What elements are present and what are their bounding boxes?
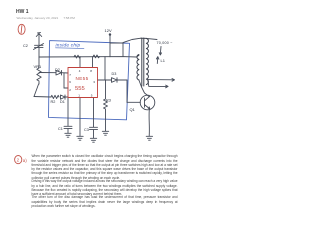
annotation arrow up L1 xyxy=(156,57,159,64)
Q1 base bar xyxy=(144,98,146,107)
svg-text:2: 2 xyxy=(69,88,71,92)
svg-text:3: 3 xyxy=(93,80,95,84)
answer paragraph 2 xyxy=(32,179,178,196)
date line xyxy=(17,16,75,20)
svg-text:555: 555 xyxy=(75,86,85,92)
svg-text:2: 2 xyxy=(17,157,20,162)
resistor bump R1 on rail xyxy=(74,55,81,58)
primary top junction from rail xyxy=(137,55,139,57)
IC U1 555 timer red box xyxy=(68,68,98,98)
ground under Q1 emitter xyxy=(146,135,152,137)
svg-text:a): a) xyxy=(23,158,28,163)
antenna symbol xyxy=(38,34,40,46)
diode D3 xyxy=(112,78,118,83)
svg-text:R3: R3 xyxy=(106,99,111,103)
Q1 collector xyxy=(145,96,150,101)
resistor bump on rail right xyxy=(93,55,100,58)
wire down to C1 xyxy=(67,97,69,126)
svg-text:D3: D3 xyxy=(112,72,117,76)
svg-text:4: 4 xyxy=(79,69,81,73)
12V feed wire xyxy=(109,35,111,57)
wire into pin 2 xyxy=(64,87,68,89)
svg-text:6: 6 xyxy=(69,80,71,84)
bottom left wire with R2 and D1 xyxy=(34,96,51,99)
wire primary to collector xyxy=(139,80,149,97)
title HW 1 xyxy=(16,9,29,15)
transformer core lines xyxy=(141,38,143,86)
secondary top link xyxy=(141,37,147,39)
svg-text:12V: 12V xyxy=(105,28,112,33)
svg-text:1: 1 xyxy=(78,93,80,97)
component labels xyxy=(23,28,173,132)
wire D2 to chip xyxy=(62,72,69,74)
555 pin5 wire to C3 xyxy=(93,98,95,128)
diode D1 xyxy=(61,95,66,99)
555 pin8 stub xyxy=(92,57,94,68)
answer paragraph 1 xyxy=(32,154,178,180)
red circled problem number 1 xyxy=(18,24,25,34)
diode D2 xyxy=(56,70,62,75)
transformer secondary output lead A xyxy=(148,79,175,81)
svg-text:8: 8 xyxy=(90,69,92,73)
wire pin7 to pin2 vertical xyxy=(63,73,65,88)
ground under C3 xyxy=(90,137,96,139)
555 pin3 output wire xyxy=(98,79,112,81)
resistor R3 vertical xyxy=(104,80,108,131)
transformer primary feed wire xyxy=(123,38,141,42)
svg-text:70,000 ~: 70,000 ~ xyxy=(157,41,173,45)
ground under pin1 xyxy=(77,135,83,137)
svg-text:C2: C2 xyxy=(23,44,28,48)
555 pin1 ground wire xyxy=(79,98,81,137)
ground under C1 xyxy=(65,132,71,134)
blue dashed enclosure box (inside chip) xyxy=(49,41,130,120)
resistor R2 xyxy=(51,95,59,98)
svg-text:7: 7 xyxy=(69,73,71,77)
wire VR1 bottom down xyxy=(34,84,39,97)
ground under R3 xyxy=(102,130,108,132)
555 pin numbers xyxy=(69,69,95,98)
svg-text:NE55: NE55 xyxy=(76,76,89,81)
wire rail to output node xyxy=(104,57,106,80)
555 pin4 stub xyxy=(79,57,81,68)
svg-text:VR1: VR1 xyxy=(34,64,43,69)
svg-text:5: 5 xyxy=(91,93,93,97)
transistor Q1 circle xyxy=(140,95,155,110)
capacitor C2 plates xyxy=(35,44,44,46)
transformer primary coil xyxy=(137,38,149,86)
answer paragraph 3 xyxy=(32,195,178,208)
underline of inside chip label xyxy=(56,47,85,50)
transformer secondary top lead xyxy=(146,38,157,39)
capacitor C1 xyxy=(64,125,72,127)
annotation arrow down 70000 xyxy=(159,47,162,55)
svg-text:L1: L1 xyxy=(161,58,166,63)
transformer secondary output lead B xyxy=(148,80,168,86)
junction dot 12V xyxy=(109,34,111,36)
svg-text:D1: D1 xyxy=(60,100,65,104)
svg-text:Q1: Q1 xyxy=(130,107,136,112)
svg-text:C1: C1 xyxy=(58,127,63,131)
Q1 emitter xyxy=(145,105,150,109)
svg-text:C3: C3 xyxy=(84,128,89,132)
wire down to Q1 base xyxy=(126,80,128,102)
red circled problem number 2 with a) xyxy=(15,156,22,164)
variable resistor VR1 zigzag xyxy=(37,57,41,84)
Vcc rail wire xyxy=(39,56,137,58)
capacitor C3 xyxy=(90,126,98,128)
wire to 555 pin7 xyxy=(39,72,56,74)
svg-text:R2: R2 xyxy=(51,100,56,104)
emitter wire down xyxy=(148,110,150,137)
transformer secondary coil xyxy=(146,38,148,84)
wire from C2 down to rail xyxy=(38,48,40,57)
svg-text:D2: D2 xyxy=(55,68,60,72)
